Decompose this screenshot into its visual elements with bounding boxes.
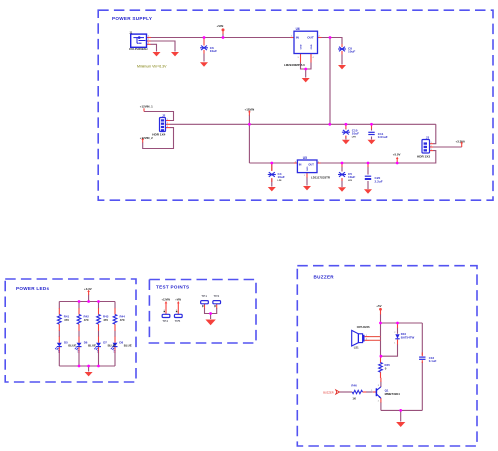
svg-text:U5: U5 — [303, 156, 307, 160]
svg-text:2.2uF: 2.2uF — [375, 179, 383, 183]
svg-text:HDR 1X4: HDR 1X4 — [152, 132, 165, 136]
svg-text:LD1117S33TR: LD1117S33TR — [311, 176, 331, 180]
svg-text:R46: R46 — [351, 384, 357, 388]
svg-text:Minimum Vin=6.3V: Minimum Vin=6.3V — [137, 65, 167, 69]
svg-text:+3.3V: +3.3V — [84, 287, 92, 291]
svg-text:TP1: TP1 — [201, 294, 207, 298]
svg-text:TP4: TP4 — [162, 319, 168, 323]
svg-text:GND: GND — [307, 166, 309, 171]
svg-text:TP2: TP2 — [214, 294, 220, 298]
svg-text:0.1uF: 0.1uF — [429, 359, 437, 363]
svg-text:470: 470 — [84, 318, 89, 322]
svg-text:LED: LED — [113, 349, 115, 354]
svg-text:BLUE: BLUE — [68, 344, 76, 348]
svg-text:BLUE: BLUE — [124, 344, 132, 348]
svg-text:TP5: TP5 — [175, 319, 181, 323]
svg-text:BAT54TW: BAT54TW — [401, 336, 415, 340]
svg-text:LED: LED — [57, 349, 59, 354]
svg-text:HDR 1X3: HDR 1X3 — [417, 154, 430, 158]
svg-text:+5V: +5V — [376, 304, 381, 308]
svg-text:MMBT3904: MMBT3904 — [385, 392, 400, 396]
svg-text:OUT: OUT — [307, 36, 314, 40]
svg-text:+12VIN_1: +12VIN_1 — [140, 104, 153, 108]
svg-text:LED: LED — [77, 349, 79, 354]
svg-text:470: 470 — [64, 318, 69, 322]
svg-text:J3: J3 — [426, 135, 430, 139]
svg-text:470: 470 — [120, 318, 125, 322]
svg-text:BLUE: BLUE — [88, 344, 96, 348]
svg-text:LED: LED — [96, 349, 98, 354]
svg-text:J2: J2 — [162, 113, 166, 117]
svg-text:OUT: OUT — [308, 162, 314, 166]
svg-text:BUZZER: BUZZER — [323, 390, 334, 394]
svg-text:+5.0V: +5.0V — [393, 153, 401, 157]
svg-text:470: 470 — [103, 318, 108, 322]
svg-text:LS1: LS1 — [354, 346, 359, 350]
svg-text:CMT-4023S: CMT-4023S — [357, 326, 370, 329]
svg-text:POWER SUPPLY: POWER SUPPLY — [112, 16, 152, 21]
svg-text:POWER LEDs: POWER LEDs — [16, 286, 50, 291]
svg-text:GND: GND — [301, 44, 303, 49]
svg-text:IN: IN — [299, 162, 302, 166]
svg-text:BUZZER: BUZZER — [314, 274, 335, 279]
svg-text:10uF: 10uF — [210, 49, 217, 53]
svg-text:0.01uF: 0.01uF — [378, 135, 388, 139]
svg-text:+12VIN_2: +12VIN_2 — [140, 136, 153, 140]
svg-text:LM2940IMP-5.0: LM2940IMP-5.0 — [284, 63, 305, 67]
svg-text:+12VIN: +12VIN — [245, 108, 255, 112]
svg-text:GND: GND — [311, 44, 313, 49]
svg-text:+12VIN: +12VIN — [162, 299, 171, 302]
svg-text:CUI-PJ202AH: CUI-PJ202AH — [129, 47, 147, 51]
svg-text:10uF: 10uF — [352, 132, 359, 136]
svg-text:+VIN: +VIN — [217, 24, 224, 28]
svg-text:10uF: 10uF — [278, 175, 285, 179]
svg-text:10uF: 10uF — [348, 50, 355, 54]
svg-text:+VIN: +VIN — [175, 299, 181, 302]
svg-text:TEST POINTS: TEST POINTS — [156, 285, 189, 290]
svg-text:BLUE: BLUE — [108, 344, 116, 348]
svg-text:+3.3VA: +3.3VA — [456, 139, 466, 143]
svg-text:10uF: 10uF — [348, 175, 355, 179]
svg-text:U6: U6 — [296, 27, 300, 31]
